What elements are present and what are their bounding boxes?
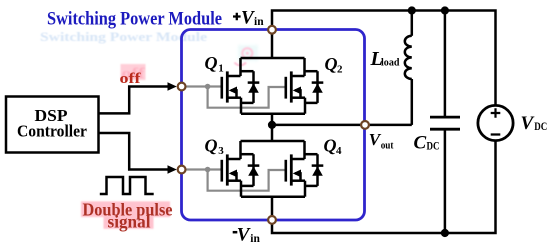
svg-text:in: in — [254, 16, 264, 28]
svg-text:DC: DC — [534, 121, 547, 133]
svg-text:Q: Q — [205, 53, 218, 73]
svg-text:load: load — [381, 56, 400, 68]
svg-text:signal: signal — [108, 211, 151, 231]
svg-text:in: in — [250, 233, 260, 245]
svg-text:Q: Q — [325, 54, 338, 74]
svg-text:C: C — [414, 133, 427, 154]
svg-text:Q: Q — [205, 136, 218, 156]
svg-text:out: out — [381, 140, 394, 152]
svg-text:Q: Q — [324, 136, 337, 156]
svg-text:Switching Power Module: Switching Power Module — [47, 10, 222, 30]
svg-text:V: V — [521, 113, 535, 134]
svg-text:3: 3 — [218, 145, 224, 157]
svg-text:4: 4 — [336, 145, 342, 157]
svg-text:DC: DC — [427, 140, 440, 152]
svg-text:V: V — [241, 8, 255, 29]
svg-text:off: off — [120, 71, 142, 87]
svg-text:Controller: Controller — [17, 122, 87, 141]
svg-text:2: 2 — [337, 64, 343, 76]
svg-text:1: 1 — [218, 63, 224, 75]
svg-text:V: V — [237, 225, 251, 246]
